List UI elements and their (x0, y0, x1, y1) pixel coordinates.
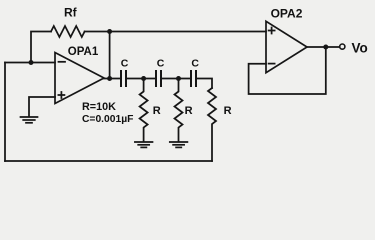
ground (R1) (135, 142, 153, 147)
svg-text:C: C (191, 58, 199, 70)
wire C1 to node A (127, 78, 155, 80)
capacitor C1 (121, 71, 126, 86)
svg-text:R: R (153, 105, 161, 117)
wire top rail right (Rf to OPA2 + input) (85, 31, 266, 33)
node Rf / output junction on top rail (107, 29, 112, 34)
wire top rail left (minus node to Rf) (31, 32, 51, 63)
capacitor C3 (191, 71, 196, 86)
svg-text:C: C (157, 58, 165, 70)
wire left feedback rail (4, 63, 6, 162)
svg-text:C: C (121, 58, 129, 70)
wire output node vertical to top rail (109, 32, 111, 79)
svg-text:OPA1: OPA1 (68, 46, 99, 58)
wire bottom rail (5, 160, 212, 162)
resistor R2 (175, 79, 183, 142)
wire OPA2 feedback loop (249, 47, 326, 94)
node B junction (176, 76, 181, 81)
svg-text:Vo: Vo (352, 40, 368, 55)
svg-text:R: R (224, 105, 232, 117)
wire OPA1 non-inverting input (29, 97, 55, 116)
node OPA1 output junction (107, 76, 112, 81)
svg-text:Rf: Rf (64, 6, 78, 20)
node Vo terminal (340, 44, 345, 49)
wire OPA1 inverting input (5, 62, 55, 64)
resistor R1 (140, 79, 148, 142)
resistor Rf (51, 26, 85, 37)
op-amp OPA2 (266, 21, 307, 72)
ground (R2) (170, 142, 188, 147)
node inverting input junction (29, 60, 34, 65)
op-amp OPA1 (55, 53, 104, 104)
node output junction (323, 45, 328, 50)
svg-text:C=0.001µF: C=0.001µF (82, 114, 133, 125)
node A junction (141, 76, 146, 81)
capacitor C2 (156, 71, 161, 86)
wire C2 to node B (162, 78, 190, 80)
svg-text:OPA2: OPA2 (271, 7, 303, 21)
wire OPA1 output (104, 78, 120, 80)
wire C3 to R3 corner (197, 79, 212, 89)
ground (OPA1 + input) (21, 117, 38, 123)
resistor R3 (208, 88, 216, 161)
svg-text:R: R (185, 105, 193, 117)
svg-text:R=10K: R=10K (82, 101, 116, 113)
wire OPA2 output (307, 46, 340, 48)
